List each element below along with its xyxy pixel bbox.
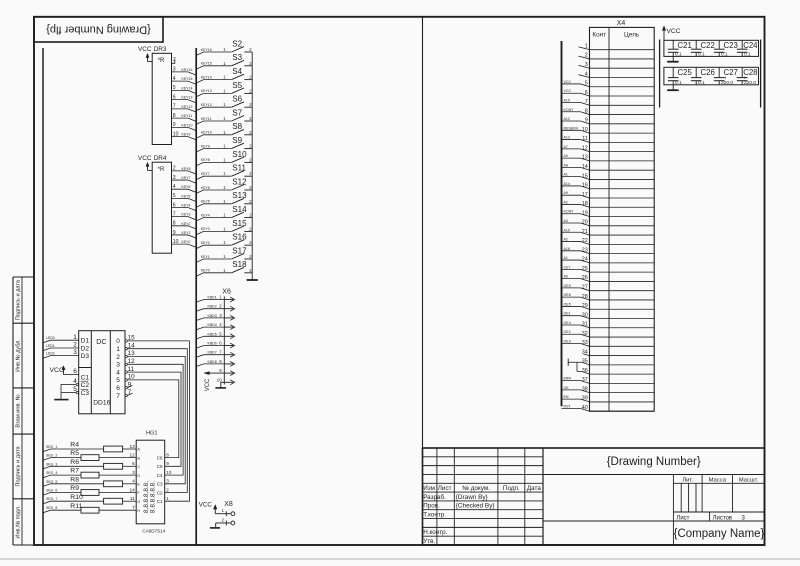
svg-text:0.1: 0.1	[675, 80, 682, 86]
svg-text:1: 1	[223, 61, 226, 66]
svg-text:7: 7	[219, 350, 222, 355]
svg-text:4: 4	[116, 369, 120, 376]
svg-text:S17: S17	[232, 246, 247, 255]
svg-text:C6: C6	[157, 456, 163, 461]
svg-text:C5: C5	[157, 464, 163, 469]
svg-text:S4: S4	[232, 67, 242, 76]
svg-text:3: 3	[166, 479, 169, 484]
svg-text:2: 2	[73, 342, 77, 349]
svg-text:1: 1	[223, 116, 226, 121]
svg-text:X8: X8	[224, 501, 233, 508]
svg-text:A: A	[137, 448, 140, 452]
svg-text:R9: R9	[70, 485, 79, 492]
svg-text:8: 8	[173, 221, 176, 227]
svg-text:KEY9: KEY9	[182, 133, 191, 137]
svg-text:A13: A13	[564, 136, 570, 140]
svg-text:3: 3	[73, 349, 77, 356]
svg-text:S13: S13	[232, 191, 247, 200]
svg-text:Конт: Конт	[592, 32, 606, 39]
svg-text:SEG_7: SEG_7	[46, 497, 57, 501]
svg-text:Подпись и дата: Подпись и дата	[16, 279, 22, 320]
svg-text:C2: C2	[81, 382, 90, 389]
svg-text:Изм: Изм	[423, 485, 435, 492]
svg-text:9: 9	[173, 122, 176, 128]
svg-text:C27: C27	[724, 68, 738, 77]
svg-text:1: 1	[223, 130, 226, 135]
svg-text:6: 6	[173, 202, 176, 208]
svg-text:OE3: OE3	[564, 340, 571, 344]
svg-text:7: 7	[132, 505, 135, 511]
svg-text:{Company Name}: {Company Name}	[674, 528, 765, 540]
svg-text:2: 2	[173, 57, 176, 63]
svg-text:{Checked By}: {Checked By}	[456, 503, 496, 510]
svg-text:S10: S10	[232, 150, 247, 159]
svg-text:DC: DC	[96, 339, 106, 346]
svg-text:C2: C2	[157, 490, 163, 495]
svg-text:C22: C22	[701, 41, 715, 50]
svg-text:1: 1	[73, 334, 77, 341]
svg-text:DD16: DD16	[93, 399, 110, 406]
svg-text:1: 1	[166, 496, 169, 501]
svg-text:S18: S18	[232, 260, 247, 269]
svg-text:S16: S16	[232, 233, 247, 242]
svg-text:KEY14: KEY14	[201, 75, 212, 79]
svg-text:KEY10: KEY10	[201, 131, 212, 135]
svg-text:OE: OE	[564, 386, 570, 390]
svg-text:Инв.№ дубл.: Инв.№ дубл.	[16, 339, 22, 373]
svg-text:KEY0: KEY0	[182, 240, 191, 244]
svg-text:KEY6: KEY6	[182, 185, 191, 189]
svg-text:KEY4: KEY4	[201, 213, 210, 217]
svg-text:OE2: OE2	[564, 330, 571, 334]
svg-text:RST: RST	[564, 404, 572, 408]
svg-text:CA6D7S14: CA6D7S14	[142, 529, 165, 534]
svg-text:8.8.8.8.8.8.: 8.8.8.8.8.8.	[150, 481, 157, 513]
svg-text:Пров.: Пров.	[423, 503, 440, 510]
svg-text:A16: A16	[564, 247, 570, 251]
svg-text:Утв.: Утв.	[423, 538, 435, 545]
svg-text:Т.контр.: Т.контр.	[423, 511, 446, 518]
svg-text:S2: S2	[232, 39, 242, 48]
svg-text:VCC: VCC	[138, 155, 152, 162]
svg-text:KEY10: KEY10	[182, 123, 193, 127]
svg-text:3: 3	[116, 362, 120, 369]
svg-text:EN: EN	[564, 395, 569, 399]
svg-text:DR3: DR3	[154, 46, 167, 53]
svg-text:X4: X4	[617, 20, 626, 27]
svg-text:KBD2: KBD2	[208, 305, 217, 309]
svg-text:10: 10	[166, 470, 172, 475]
svg-text:3: 3	[173, 175, 176, 181]
svg-text:Масшт.: Масшт.	[739, 477, 759, 483]
svg-text:1: 1	[223, 171, 226, 176]
svg-text:R7: R7	[70, 468, 79, 475]
svg-text:2: 2	[116, 354, 120, 361]
svg-text:A8: A8	[564, 163, 568, 167]
svg-text:ERR: ERR	[564, 377, 572, 381]
svg-text:8: 8	[219, 359, 222, 364]
svg-text:C25: C25	[678, 68, 693, 77]
svg-text:SEG_4: SEG_4	[46, 471, 57, 475]
svg-text:{Drawn By}: {Drawn By}	[456, 494, 489, 501]
svg-text:D1: D1	[81, 338, 90, 345]
svg-text:KEY15: KEY15	[182, 77, 193, 81]
svg-text:VCC: VCC	[205, 378, 211, 391]
svg-text:VCC: VCC	[138, 46, 152, 53]
svg-text:KEY4: KEY4	[182, 204, 191, 208]
svg-text:KEY7: KEY7	[182, 176, 191, 180]
svg-text:S11: S11	[232, 164, 246, 173]
svg-text:4: 4	[173, 76, 176, 82]
svg-text:Подп.: Подп.	[503, 485, 520, 492]
svg-text:Разраб.: Разраб.	[423, 493, 446, 501]
svg-text:A2: A2	[564, 200, 568, 204]
svg-text:F: F	[137, 491, 140, 495]
svg-text:A7: A7	[564, 145, 568, 149]
svg-text:KEY13: KEY13	[182, 96, 193, 100]
svg-text:KONT: KONT	[564, 210, 575, 214]
svg-text:6: 6	[116, 385, 120, 392]
svg-text:KEY9: KEY9	[201, 144, 210, 148]
svg-text:R10: R10	[70, 494, 83, 501]
svg-text:G: G	[137, 500, 140, 504]
svg-text:SEG_6: SEG_6	[46, 489, 57, 493]
svg-text:9: 9	[219, 368, 222, 373]
svg-text:KEY0: KEY0	[201, 269, 210, 273]
svg-text:A12: A12	[564, 117, 570, 121]
svg-text:Инв.№ подл.: Инв.№ подл.	[16, 505, 22, 539]
svg-text:6: 6	[73, 368, 77, 375]
svg-text:S3: S3	[232, 53, 242, 62]
svg-text:2: 2	[222, 518, 225, 523]
svg-text:0: 0	[116, 338, 120, 345]
svg-text:Подпись и дата: Подпись и дата	[16, 445, 22, 486]
svg-text:4: 4	[173, 184, 176, 190]
svg-text:S14: S14	[232, 205, 247, 214]
svg-text:Цепь: Цепь	[624, 32, 640, 39]
svg-text:KEY16: KEY16	[182, 68, 193, 72]
svg-text:2: 2	[249, 47, 252, 52]
svg-text:HG1: HG1	[146, 430, 158, 436]
svg-text:LED1: LED1	[46, 344, 55, 348]
svg-text:R8: R8	[70, 476, 79, 483]
svg-text:KBD8: KBD8	[208, 360, 217, 364]
svg-text:0.1: 0.1	[675, 52, 682, 58]
svg-text:5: 5	[173, 193, 176, 199]
svg-text:0.1: 0.1	[698, 80, 705, 86]
svg-text:1: 1	[223, 185, 226, 190]
svg-text:VCC: VCC	[50, 367, 64, 374]
svg-text:0.1: 0.1	[721, 52, 728, 58]
svg-text:SEG_3: SEG_3	[46, 462, 57, 466]
svg-text:6: 6	[219, 341, 222, 346]
svg-text:Лист: Лист	[438, 485, 452, 492]
svg-text:7: 7	[116, 393, 120, 400]
svg-text:DR4: DR4	[154, 155, 167, 162]
svg-text:C23: C23	[724, 41, 738, 50]
svg-text:KEY3: KEY3	[201, 227, 210, 231]
svg-text:1: 1	[223, 268, 226, 273]
svg-text:A9: A9	[564, 191, 568, 195]
svg-text:1: 1	[223, 102, 226, 107]
svg-text:*R: *R	[158, 167, 165, 173]
svg-text:KEY12: KEY12	[182, 105, 193, 109]
svg-text:S12: S12	[232, 177, 247, 186]
svg-text:SEG_8: SEG_8	[46, 506, 57, 510]
svg-text:KEY12: KEY12	[201, 103, 212, 107]
svg-text:13: 13	[129, 444, 135, 450]
svg-text:Н.контр.: Н.контр.	[423, 529, 447, 536]
svg-text:220.0: 220.0	[721, 80, 733, 86]
svg-text:VCC: VCC	[564, 89, 572, 93]
svg-text:X6: X6	[222, 289, 231, 296]
svg-text:VCC: VCC	[564, 80, 572, 84]
svg-text:C28: C28	[743, 68, 757, 77]
svg-text:KEY7: KEY7	[201, 172, 210, 176]
svg-text:0.1: 0.1	[744, 52, 751, 58]
svg-text:OE4: OE4	[564, 321, 571, 325]
svg-text:S5: S5	[232, 81, 242, 90]
svg-text:B: B	[137, 456, 140, 460]
svg-text:C4: C4	[157, 473, 163, 478]
svg-text:KEY15: KEY15	[201, 62, 212, 66]
svg-text:KEY8: KEY8	[201, 158, 210, 162]
svg-text:VCC: VCC	[667, 28, 681, 35]
svg-text:6: 6	[132, 461, 135, 467]
svg-text:3: 3	[742, 515, 746, 521]
svg-text:A3: A3	[564, 219, 568, 223]
svg-text:4: 4	[219, 322, 222, 327]
svg-text:A1: A1	[564, 256, 568, 260]
svg-text:R6: R6	[70, 459, 79, 466]
svg-text:A1: A1	[564, 173, 568, 177]
svg-text:0.1: 0.1	[698, 52, 705, 58]
svg-text:2: 2	[219, 304, 222, 309]
svg-text:KEY2: KEY2	[201, 241, 210, 245]
svg-text:R4: R4	[70, 442, 79, 449]
svg-text:KEY11: KEY11	[201, 117, 212, 121]
svg-text:OE1: OE1	[564, 312, 571, 316]
svg-text:S9: S9	[232, 136, 242, 145]
svg-text:3: 3	[219, 313, 222, 318]
svg-text:1: 1	[222, 508, 225, 513]
svg-text:5: 5	[219, 331, 222, 336]
svg-text:1: 1	[223, 75, 226, 80]
svg-text:9: 9	[166, 461, 169, 466]
svg-text:220.0: 220.0	[744, 80, 756, 86]
svg-text:1: 1	[223, 144, 226, 149]
svg-text:VCC: VCC	[199, 502, 213, 509]
svg-text:7: 7	[173, 104, 176, 110]
svg-text:11: 11	[130, 496, 135, 502]
svg-text:OE5: OE5	[564, 302, 571, 306]
svg-text:3: 3	[173, 67, 176, 73]
svg-text:10: 10	[173, 239, 179, 245]
svg-text:№ докум.: № докум.	[462, 485, 490, 492]
svg-text:8: 8	[173, 113, 176, 119]
svg-text:A15: A15	[564, 98, 570, 102]
svg-text:S15: S15	[232, 219, 247, 228]
svg-text:KEY3: KEY3	[182, 213, 191, 217]
svg-text:KBD1: KBD1	[208, 296, 217, 300]
svg-text:C: C	[137, 465, 140, 469]
svg-text:6: 6	[173, 94, 176, 100]
svg-text:5: 5	[116, 377, 120, 384]
svg-text:C1: C1	[157, 499, 163, 504]
svg-text:9: 9	[173, 230, 176, 236]
svg-text:KEY5: KEY5	[182, 194, 191, 198]
svg-text:1: 1	[116, 346, 120, 353]
svg-text:KBD5: KBD5	[208, 332, 217, 336]
svg-text:12: 12	[129, 452, 135, 458]
svg-text:R11: R11	[70, 503, 82, 510]
svg-text:H: H	[137, 509, 140, 513]
svg-text:OE6: OE6	[564, 293, 571, 297]
svg-text:1: 1	[223, 254, 226, 259]
svg-text:SEG_5: SEG_5	[46, 480, 57, 484]
svg-text:SEG_1: SEG_1	[46, 445, 57, 449]
svg-text:CE7: CE7	[564, 265, 571, 269]
svg-text:LED2: LED2	[46, 352, 55, 356]
svg-text:1: 1	[223, 199, 226, 204]
svg-text:10: 10	[217, 377, 222, 382]
svg-text:KEY2: KEY2	[182, 222, 191, 226]
svg-text:D3: D3	[81, 353, 90, 360]
svg-text:KBD4: KBD4	[208, 323, 217, 327]
svg-text:C26: C26	[701, 68, 715, 77]
svg-text:LED0: LED0	[46, 336, 55, 340]
svg-text:RESERV: RESERV	[564, 126, 579, 130]
svg-text:E: E	[137, 483, 140, 487]
svg-text:KBD6: KBD6	[208, 342, 217, 346]
svg-text:1: 1	[223, 213, 226, 218]
svg-text:1: 1	[223, 157, 226, 162]
svg-text:D2: D2	[81, 345, 90, 352]
svg-text:1: 1	[223, 88, 226, 93]
svg-text:Лист: Лист	[676, 515, 689, 521]
svg-text:7: 7	[173, 211, 176, 217]
svg-text:A0: A0	[564, 275, 568, 279]
svg-text:{Drawing Number flp}: {Drawing Number flp}	[46, 24, 151, 36]
svg-text:C3: C3	[81, 390, 90, 397]
svg-text:KEY1: KEY1	[182, 231, 191, 235]
svg-text:KEY6: KEY6	[201, 186, 210, 190]
svg-text:{Drawing Number}: {Drawing Number}	[607, 456, 701, 468]
svg-text:KEY5: KEY5	[201, 200, 210, 204]
svg-text:2: 2	[166, 487, 169, 492]
svg-text:OE0: OE0	[564, 284, 571, 288]
svg-text:Взам.инв. №: Взам.инв. №	[16, 394, 22, 427]
svg-text:KBD7: KBD7	[208, 351, 217, 355]
svg-text:A2: A2	[564, 238, 568, 242]
svg-text:KEY16: KEY16	[201, 48, 212, 52]
svg-text:14: 14	[129, 487, 135, 493]
svg-text:Лит.: Лит.	[682, 477, 693, 483]
svg-text:KEY1: KEY1	[201, 255, 210, 259]
svg-text:S8: S8	[232, 122, 242, 131]
svg-text:1: 1	[223, 47, 226, 52]
svg-text:R5: R5	[70, 450, 79, 457]
svg-text:A10: A10	[564, 228, 570, 232]
svg-text:KEY14: KEY14	[182, 86, 193, 90]
svg-text:A0: A0	[564, 154, 568, 158]
svg-text:Дата: Дата	[527, 485, 541, 492]
svg-text:Листов: Листов	[713, 515, 733, 521]
svg-text:8: 8	[166, 452, 169, 457]
svg-text:D: D	[137, 474, 140, 478]
svg-text:*R: *R	[158, 58, 165, 64]
svg-text:10: 10	[173, 131, 179, 137]
svg-text:4: 4	[132, 479, 135, 485]
svg-text:Масса: Масса	[709, 477, 727, 483]
svg-text:A14: A14	[564, 182, 570, 186]
svg-text:2: 2	[173, 166, 176, 172]
svg-text:KEY8: KEY8	[182, 167, 191, 171]
svg-text:C3: C3	[157, 482, 163, 487]
svg-text:C24: C24	[743, 41, 758, 50]
svg-text:KEY11: KEY11	[182, 114, 193, 118]
svg-text:C1: C1	[81, 374, 90, 381]
svg-text:3: 3	[132, 470, 135, 476]
svg-text:5: 5	[173, 85, 176, 91]
svg-text:SEG_2: SEG_2	[46, 454, 57, 458]
svg-text:1: 1	[223, 240, 226, 245]
svg-text:S6: S6	[232, 95, 242, 104]
svg-text:S7: S7	[232, 108, 242, 117]
svg-text:1: 1	[223, 226, 226, 231]
svg-text:KEY13: KEY13	[201, 89, 212, 93]
svg-text:KBD3: KBD3	[208, 314, 217, 318]
svg-text:C21: C21	[678, 41, 692, 50]
svg-text:KONT: KONT	[564, 108, 575, 112]
